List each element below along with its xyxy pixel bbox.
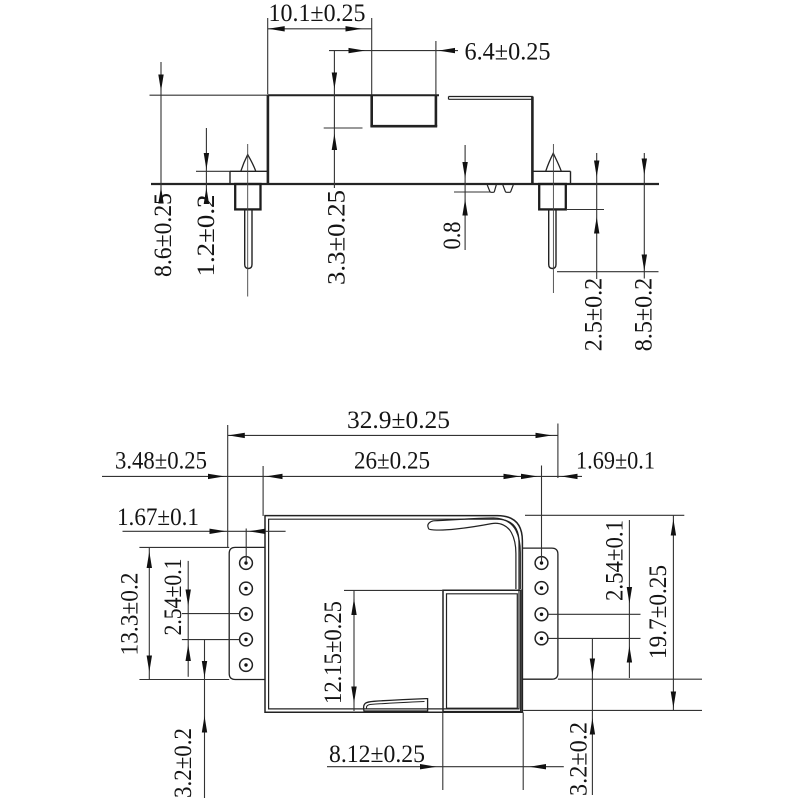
svg-text:3.48±0.25: 3.48±0.25	[115, 448, 207, 475]
svg-text:8.6±0.25: 8.6±0.25	[150, 193, 177, 277]
side view: right pin axis line	[552, 144, 554, 293]
bottom view: right mounting tab	[522, 548, 558, 679]
curved gas channel end cap	[428, 521, 434, 530]
svg-text:3.3±0.25: 3.3±0.25	[323, 190, 350, 285]
dim 8.6±0.25	[150, 62, 268, 199]
dim 8.5±0.2	[557, 153, 659, 279]
curved gas channel lower line	[429, 523, 516, 589]
dim 32.9±0.25	[228, 424, 558, 548]
svg-text:3.2±0.2: 3.2±0.2	[566, 722, 593, 796]
dim 8.12±0.25	[327, 713, 564, 791]
side view: top recess rectangle	[370, 96, 437, 127]
svg-text:32.9±0.25: 32.9±0.25	[347, 407, 450, 434]
side view: left pin body block	[235, 184, 260, 209]
side view: bottom notch 1	[487, 185, 496, 193]
dim 2.54±0.1 right	[548, 520, 641, 678]
side view: bottom notch 2	[503, 185, 514, 193]
pin hole L5	[240, 659, 253, 672]
svg-text:8.5±0.2: 8.5±0.2	[631, 278, 658, 352]
dim 19.7±0.25	[525, 515, 684, 710]
svg-text:1.2±0.2: 1.2±0.2	[193, 195, 220, 277]
svg-text:10.1±0.25: 10.1±0.25	[269, 0, 366, 27]
pin hole L4	[240, 633, 253, 646]
svg-text:8.12±0.25: 8.12±0.25	[329, 741, 425, 768]
svg-text:19.7±0.25: 19.7±0.25	[645, 565, 672, 659]
bottom vent strip inner line	[366, 702, 424, 709]
side view: right pin body block	[539, 184, 566, 209]
svg-text:0.8: 0.8	[439, 222, 466, 250]
dim 1.2±0.2	[196, 128, 230, 199]
pin hole L3	[240, 608, 253, 621]
pin hole L1	[240, 557, 253, 570]
side view: right pin	[549, 210, 556, 269]
svg-text:1.67±0.1: 1.67±0.1	[117, 504, 199, 531]
dim 2.54±0.1 left	[182, 561, 240, 677]
svg-text:1.69±0.1: 1.69±0.1	[576, 448, 655, 475]
pin hole R3	[535, 608, 548, 621]
side view: left flange	[230, 171, 268, 184]
bottom view: body outline inner	[269, 519, 519, 709]
pin hole R2	[535, 582, 548, 595]
svg-text:3.2±0.2: 3.2±0.2	[170, 728, 197, 798]
dim 3.2±0.2 left	[204, 640, 206, 798]
side view: right pin latch spike	[546, 153, 562, 171]
svg-text:6.4±0.25: 6.4±0.25	[465, 39, 551, 66]
bottom view: body outline outer	[265, 516, 522, 713]
side view: body top edge left	[268, 94, 440, 96]
svg-text:26±0.25: 26±0.25	[354, 448, 430, 475]
dim 10.1±0.25	[268, 18, 372, 95]
dim 2.5±0.2	[566, 153, 604, 279]
pin hole R4	[535, 632, 548, 645]
pin hole R1	[535, 557, 548, 570]
dim 0.8	[454, 145, 491, 250]
bottom vent strip	[364, 699, 428, 711]
side view: left pin latch spike	[241, 155, 256, 172]
svg-text:12.15±0.25: 12.15±0.25	[320, 601, 347, 704]
svg-text:2.54±0.1: 2.54±0.1	[602, 520, 629, 601]
dim 12.15±0.25	[344, 590, 443, 711]
side view: body right edge	[531, 97, 534, 185]
svg-text:13.3±0.2: 13.3±0.2	[117, 573, 144, 656]
side view: left pin	[245, 210, 252, 269]
curved gas channel upper line	[434, 518, 521, 589]
side view: right flange	[532, 171, 570, 184]
svg-text:2.5±0.2: 2.5±0.2	[581, 278, 608, 352]
side view: left pin axis line	[247, 144, 249, 297]
dim 3.2±0.2 right	[523, 638, 702, 795]
bottom view: left mounting tab	[229, 547, 265, 679]
side view: baseline bottom edge	[151, 183, 659, 185]
dim 3.3±0.25	[324, 51, 363, 188]
side view: body left edge	[267, 95, 270, 184]
dim 26±0.25 / 3.48±0.25 / 1.69±0.1 shared leader	[102, 466, 582, 563]
pin hole L2	[240, 582, 253, 595]
IR can rectangle outer	[443, 590, 521, 711]
dim 13.3±0.2	[139, 547, 229, 679]
IR can rectangle inner	[447, 594, 518, 708]
dim 6.4±0.25	[329, 41, 458, 95]
side view: body top edge right (double line)	[449, 97, 533, 100]
svg-text:2.54±0.1: 2.54±0.1	[160, 559, 187, 636]
dim 1.67±0.1	[123, 529, 286, 563]
